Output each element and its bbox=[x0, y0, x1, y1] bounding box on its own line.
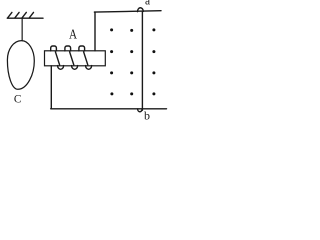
field dot r4c3 bbox=[152, 92, 155, 95]
coil turn 3 top bump bbox=[79, 46, 85, 51]
field dot r2c3 bbox=[152, 50, 155, 53]
wire bottom bbox=[51, 108, 167, 110]
string wire bbox=[21, 18, 23, 41]
ceiling hatch 1 bbox=[8, 12, 12, 18]
coil turn 1 bottom loop bbox=[58, 66, 64, 70]
coil turn 1 diagonal bbox=[55, 52, 59, 65]
svg-text:a: a bbox=[145, 0, 150, 8]
wire top rail bbox=[94, 11, 161, 12]
field dot r3c3 bbox=[152, 71, 155, 74]
field dot r1c3 bbox=[152, 28, 155, 31]
ceiling hatch 2 bbox=[15, 12, 19, 18]
field dot r4c2 bbox=[130, 92, 133, 95]
sliding rod ab bbox=[141, 11, 143, 110]
field dot r1c2 bbox=[130, 29, 133, 32]
wire left terminal down bbox=[50, 66, 52, 109]
coil turn 3 bottom loop bbox=[86, 66, 92, 70]
coil core bar bbox=[45, 51, 106, 66]
field dot r2c2 bbox=[130, 50, 133, 53]
ceiling hatch 3 bbox=[22, 12, 26, 18]
ceiling line bbox=[7, 17, 43, 19]
pendulum bob C (ellipse) bbox=[7, 41, 34, 90]
coil turn 2 diagonal bbox=[70, 52, 74, 65]
svg-text:C: C bbox=[14, 94, 22, 106]
field dot r4c1 bbox=[110, 92, 113, 95]
coil turn 3 diagonal bbox=[84, 52, 88, 65]
field dot r3c2 bbox=[130, 71, 133, 74]
hook contact a bbox=[137, 8, 143, 12]
field dot r2c1 bbox=[110, 50, 113, 53]
ceiling hatch 4 bbox=[29, 12, 33, 18]
wire right terminal up bbox=[94, 12, 96, 51]
svg-text:A: A bbox=[69, 26, 78, 41]
field dot r1c1 bbox=[110, 28, 113, 31]
coil turn 2 top bump bbox=[65, 46, 71, 51]
coil turn 1 top bump bbox=[51, 46, 57, 51]
svg-text:b: b bbox=[144, 109, 150, 123]
field dot r3c1 bbox=[110, 71, 113, 74]
hook contact b bbox=[138, 109, 143, 112]
coil turn 2 bottom loop bbox=[72, 66, 78, 70]
